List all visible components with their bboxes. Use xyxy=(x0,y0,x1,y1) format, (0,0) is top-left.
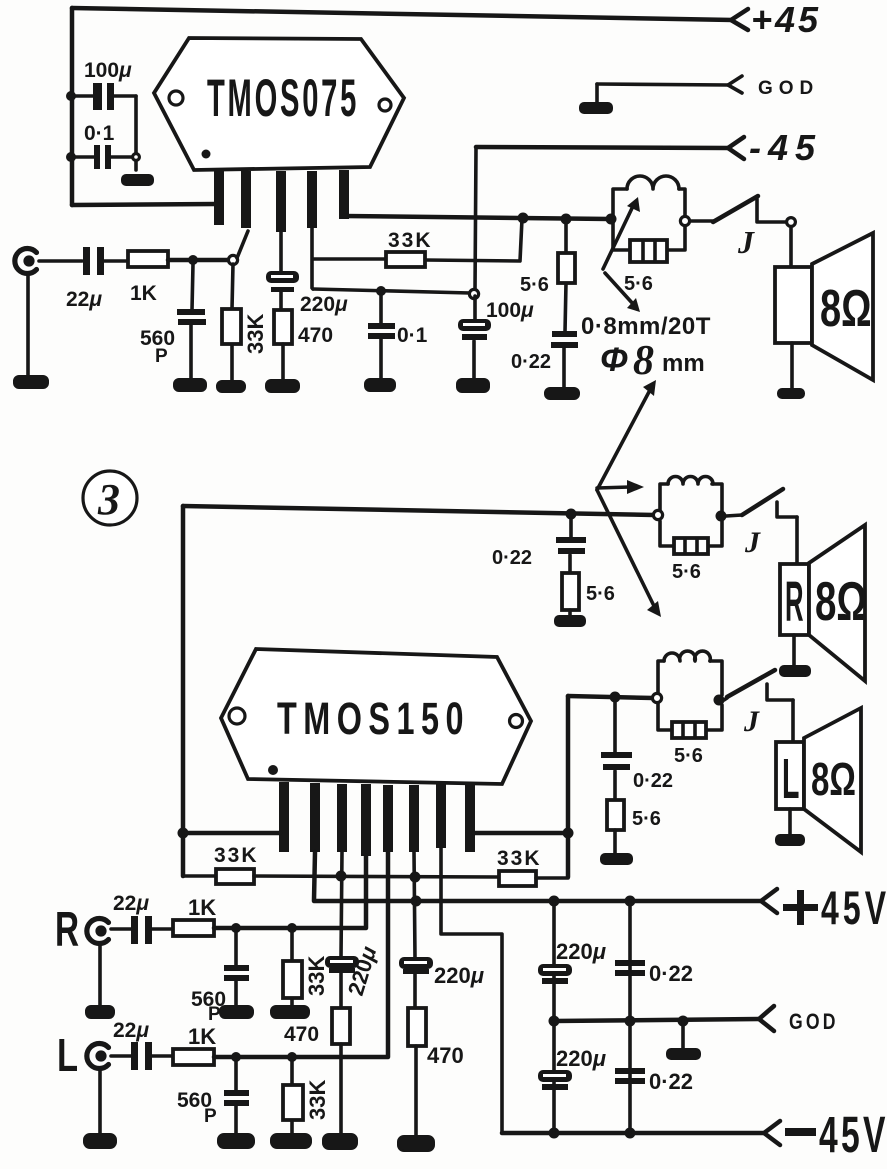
ground (GOD) xyxy=(667,1049,700,1059)
ground (L zobel) xyxy=(601,854,632,864)
ground (R jack) xyxy=(86,1006,114,1018)
node R junction 2 xyxy=(287,923,297,933)
resistor 33K vertical (top input) xyxy=(222,264,268,382)
annotation fork arrow up xyxy=(597,390,650,490)
node rail junction d1 xyxy=(411,896,422,907)
ground (L 33K) xyxy=(271,1134,311,1148)
node bypass circle junction xyxy=(469,289,478,298)
wire L jack ground xyxy=(98,1069,102,1134)
wire -45V rail xyxy=(502,1131,764,1136)
svg-text:22μ: 22μ xyxy=(113,892,149,915)
inductor L3 with 5.6 resistor (L) xyxy=(652,651,724,767)
svg-text:3: 3 xyxy=(97,475,120,524)
terminal GOD top wire xyxy=(597,84,729,85)
U1 pin 4 xyxy=(307,171,317,228)
svg-text:33K: 33K xyxy=(214,844,259,867)
resistor 470 (top) xyxy=(274,310,333,380)
svg-text:33K: 33K xyxy=(497,847,542,870)
svg-text:0·1: 0·1 xyxy=(84,122,115,145)
wire L input node xyxy=(214,852,388,1057)
switch J (R) xyxy=(726,489,797,559)
node 0.1 junction dot xyxy=(376,286,386,296)
capacitor 22u (L input) xyxy=(111,1019,173,1070)
node pin1 junction xyxy=(178,828,189,839)
wire +45 top rail xyxy=(72,8,733,20)
capacitor 0.22 (-45 filter) xyxy=(615,1068,693,1094)
svg-text:mm: mm xyxy=(662,350,705,377)
capacitor 0.1 (top-left) xyxy=(71,122,133,169)
svg-text:0·22: 0·22 xyxy=(649,1069,693,1094)
wire GOD rail xyxy=(554,1019,759,1021)
capacitor 220u (-45 filter, electrolytic) xyxy=(538,1046,606,1090)
svg-text:470: 470 xyxy=(298,324,333,347)
ground (560P top) xyxy=(174,379,206,391)
svg-text:0·8mm/20T: 0·8mm/20T xyxy=(581,313,711,340)
wire bootstrap horizontal xyxy=(313,289,470,293)
node GOD junction right xyxy=(678,1016,689,1027)
wire -45 rail xyxy=(476,147,729,148)
capacitor 220u (top, electrolytic) xyxy=(266,232,348,316)
wire GOD stub xyxy=(595,84,599,104)
resistor 1K (R input) xyxy=(173,895,216,936)
node rail junction d2 xyxy=(549,896,560,907)
svg-text:33K: 33K xyxy=(305,1080,330,1120)
node +45V arrowhead xyxy=(761,889,777,913)
resistor 470 (pin6) xyxy=(408,1008,464,1137)
ground (top zobel) xyxy=(545,388,579,399)
U2 pin 1 xyxy=(279,782,289,852)
node -45 rail junction d2 xyxy=(625,1128,636,1139)
U2 pin 8 xyxy=(465,782,475,852)
node GOD arrowhead xyxy=(759,1006,774,1031)
node switch output circle xyxy=(787,218,796,227)
wire pin1 bottom xyxy=(72,204,216,205)
svg-text:-45: -45 xyxy=(749,127,822,168)
capacitor 560P (L) xyxy=(177,1061,249,1134)
node R zobel junction xyxy=(566,509,577,520)
speaker 8ohm (top) xyxy=(775,233,873,390)
node R junction 1 xyxy=(231,923,241,933)
node input junction circle xyxy=(228,255,237,264)
capacitor 100u (top-left) xyxy=(71,59,136,110)
U2 pin 3 xyxy=(337,784,347,852)
capacitor 0.22 (top zobel) xyxy=(511,331,578,388)
svg-text:J: J xyxy=(744,526,761,559)
jack input J1 (top) xyxy=(15,249,37,274)
switch J (L) xyxy=(724,670,793,738)
capacitor 0.1 (top bypass) xyxy=(368,295,428,379)
node +45 terminal arrowhead xyxy=(731,9,748,30)
svg-text:33K: 33K xyxy=(388,229,433,252)
ground (top-left caps) xyxy=(122,175,153,185)
ground (R 33K) xyxy=(271,1006,309,1018)
svg-text:0·22: 0·22 xyxy=(633,770,673,792)
svg-text:45V: 45V xyxy=(821,882,887,935)
jack input R xyxy=(87,919,109,944)
U1 pin 3 xyxy=(276,171,286,232)
node rail junction d3 xyxy=(625,896,636,907)
svg-text:GOD: GOD xyxy=(789,1010,839,1034)
ground (470 top) xyxy=(266,380,299,392)
svg-text:5·6: 5·6 xyxy=(586,583,615,605)
capacitor 220u (pin6, electrolytic) xyxy=(399,852,484,1008)
svg-text:8Ω: 8Ω xyxy=(820,279,872,337)
ground (R zobel) xyxy=(555,616,585,626)
node -45 arrowhead xyxy=(728,137,744,159)
wire -45 vertical to bypass node xyxy=(475,148,476,291)
svg-text:R: R xyxy=(55,902,79,957)
wire jack ground xyxy=(26,274,30,377)
svg-text:L: L xyxy=(57,1029,78,1081)
node GOD junction left xyxy=(549,1016,560,1027)
resistor 33K vertical (L input) xyxy=(283,1061,330,1134)
net label +45V xyxy=(783,904,818,911)
node junction A2 xyxy=(66,152,76,162)
svg-text:22μ: 22μ xyxy=(113,1019,149,1042)
svg-text:5·6: 5·6 xyxy=(632,808,661,830)
resistor 5.6 (top zobel) xyxy=(520,223,575,332)
U1 pin 2 xyxy=(241,171,251,228)
capacitor 22u (R input) xyxy=(111,892,173,944)
svg-text:1K: 1K xyxy=(188,895,216,920)
ground (jack top) xyxy=(14,376,48,388)
U1 pin 1 xyxy=(214,170,224,225)
capacitor 100u (right bypass, electrolytic) xyxy=(458,296,534,379)
wire R output left vertical xyxy=(181,506,186,876)
wire coil to switch xyxy=(690,219,713,223)
resistor 1K (top) xyxy=(128,251,168,305)
ground (100u bypass) xyxy=(457,379,489,392)
svg-text:5·6: 5·6 xyxy=(520,274,549,296)
svg-text:1K: 1K xyxy=(188,1024,216,1049)
capacitor 220u (pin3, electrolytic) xyxy=(325,852,381,1008)
speaker L 8ohm xyxy=(776,708,861,852)
svg-text:470: 470 xyxy=(284,1023,319,1046)
inductor L1 with 5.6 resistor (top) xyxy=(606,176,690,295)
wire supply filter right chain xyxy=(628,901,632,1133)
wire jack to C22u xyxy=(39,259,82,263)
capacitor 0.22 (R zobel) xyxy=(492,519,586,573)
ground (L speaker) xyxy=(776,835,804,845)
wire L output top run xyxy=(568,696,653,698)
capacitor 220u (+45 filter, electrolytic) xyxy=(538,939,606,984)
svg-text:J: J xyxy=(737,224,755,260)
ground (pin3 chain) xyxy=(323,1134,357,1149)
node input junction dot xyxy=(188,255,198,265)
capacitor 560P (R) xyxy=(191,932,249,1025)
svg-text:TMOS075: TMOS075 xyxy=(207,69,359,128)
svg-text:5·6: 5·6 xyxy=(624,273,653,295)
svg-text:8Ω: 8Ω xyxy=(815,571,867,632)
svg-text:L: L xyxy=(782,746,799,811)
wire to L speaker xyxy=(791,700,795,741)
svg-text:0·1: 0·1 xyxy=(397,324,428,347)
ground (R speaker) xyxy=(780,666,810,676)
wire left supply vertical xyxy=(70,8,75,205)
node L zobel junction xyxy=(610,692,621,703)
wire to speaker (top) xyxy=(789,227,793,267)
svg-text:0·22: 0·22 xyxy=(511,351,551,373)
annotation arrow to coil xyxy=(603,204,634,269)
svg-text:1K: 1K xyxy=(130,282,157,305)
resistor 33K feedback (top) xyxy=(313,219,522,267)
wire R jack ground xyxy=(98,944,102,1007)
wire 22u to 1K xyxy=(104,259,128,263)
ground (0.1 bypass) xyxy=(365,379,395,391)
svg-text:33K: 33K xyxy=(243,314,268,354)
annotation fork arrow right xyxy=(597,487,630,488)
node output junction 2 xyxy=(561,214,572,225)
svg-text:220μ: 220μ xyxy=(434,963,484,988)
ground (R 560P) xyxy=(220,1006,253,1018)
node circled figure number 3 xyxy=(83,471,137,525)
wire GOD ground stub xyxy=(681,1020,685,1050)
text label phi 8mm xyxy=(600,338,705,384)
wire +45V rail xyxy=(314,852,761,901)
wire to R speaker xyxy=(795,517,799,563)
node small circle joint xyxy=(133,154,140,161)
svg-text:P: P xyxy=(155,346,168,367)
svg-text:100μ: 100μ xyxy=(84,59,132,82)
jack input L xyxy=(87,1044,109,1069)
speaker R 8ohm xyxy=(780,525,867,681)
capacitor 0.22 (L zobel) xyxy=(601,701,673,800)
svg-text:220μ: 220μ xyxy=(556,1046,606,1071)
svg-text:GOD: GOD xyxy=(758,78,819,99)
U2 pin 4 xyxy=(361,784,371,856)
node pin8 junction xyxy=(563,828,574,839)
svg-text:P: P xyxy=(208,1004,221,1025)
svg-text:220μ: 220μ xyxy=(300,293,348,316)
wire cap right legs xyxy=(134,96,138,170)
annotation fork arrow down xyxy=(597,490,654,606)
op-amp U1 TMOS075 package xyxy=(154,38,404,170)
net label -45V xyxy=(785,1107,887,1164)
ground (GOD top) xyxy=(580,103,612,113)
svg-text:8Ω: 8Ω xyxy=(811,755,856,805)
wire to pin2 xyxy=(237,231,248,258)
wire pin8 to right vertical xyxy=(474,831,568,836)
U2 pin 2 xyxy=(310,783,320,852)
wire L output vertical xyxy=(566,696,571,877)
svg-text:220μ: 220μ xyxy=(556,939,606,964)
ground (top speaker) xyxy=(778,389,804,398)
svg-text:45V: 45V xyxy=(819,1107,887,1164)
wire R input node xyxy=(214,856,366,928)
svg-text:22μ: 22μ xyxy=(66,288,102,311)
resistor 5.6 (L zobel) xyxy=(607,800,661,855)
node output junction 1 xyxy=(518,213,529,224)
svg-text:8: 8 xyxy=(633,338,654,384)
wire output (pin5) xyxy=(344,216,610,219)
svg-text:470: 470 xyxy=(427,1043,464,1068)
node fb junction pin6 xyxy=(410,872,421,883)
resistor 1K (L input) xyxy=(173,1024,216,1065)
node L junction 2 xyxy=(287,1052,297,1062)
U2 pin 6 xyxy=(409,785,419,852)
resistor 5.6 (R zobel) xyxy=(562,573,615,617)
node -45 rail junction d1 xyxy=(549,1128,560,1139)
wire pin4 down xyxy=(312,228,313,289)
ground (L 560P) xyxy=(218,1134,254,1148)
capacitor 560P (top) xyxy=(140,264,206,379)
wire pin1 to left vertical xyxy=(183,831,280,836)
node -45V arrowhead xyxy=(764,1121,780,1145)
ground (pin6 chain) xyxy=(398,1136,434,1151)
wire pin7 to -45V xyxy=(441,848,502,1133)
svg-text:5·6: 5·6 xyxy=(672,561,701,583)
capacitor 0.22 (+45 filter) xyxy=(615,960,693,986)
resistor 33K feedback (R ch) xyxy=(183,844,499,884)
annotation arrow to text xyxy=(605,273,634,305)
op-amp U2 TMOS150 package xyxy=(221,649,531,784)
node GOD junction mid xyxy=(625,1016,636,1027)
svg-text:0·22: 0·22 xyxy=(649,961,693,986)
U2 pin 5 xyxy=(383,785,393,852)
svg-text:0·22: 0·22 xyxy=(492,547,532,569)
ground (L jack) xyxy=(84,1134,116,1148)
capacitor 22u (top input) xyxy=(66,247,104,311)
wire supply filter left chain xyxy=(552,901,556,1133)
U1 pin 5 xyxy=(339,170,349,219)
svg-text:Φ: Φ xyxy=(600,341,628,379)
resistor 470 (pin3) xyxy=(284,1008,350,1135)
wire R output top run xyxy=(183,506,654,515)
node L junction 1 xyxy=(231,1052,241,1062)
node fb junction pin3 xyxy=(336,871,347,882)
node junction A1 xyxy=(66,91,76,101)
svg-text:R: R xyxy=(785,571,804,634)
ground (33K top) xyxy=(217,381,245,392)
resistor 33K feedback (L ch) xyxy=(497,847,568,886)
svg-text:100μ: 100μ xyxy=(486,299,534,322)
svg-text:J: J xyxy=(743,705,760,738)
node GOD arrowhead xyxy=(728,76,742,93)
U2 pin 7 xyxy=(436,782,446,848)
switch J (top) xyxy=(713,196,786,260)
inductor L2 with 5.6 resistor (R) xyxy=(653,477,726,583)
svg-text:+45: +45 xyxy=(751,0,821,40)
svg-text:5·6: 5·6 xyxy=(674,745,703,767)
svg-text:TMOS150: TMOS150 xyxy=(277,695,470,744)
wire input node xyxy=(168,258,236,263)
svg-text:P: P xyxy=(204,1106,217,1127)
resistor 33K vertical (R input) xyxy=(283,932,329,1007)
